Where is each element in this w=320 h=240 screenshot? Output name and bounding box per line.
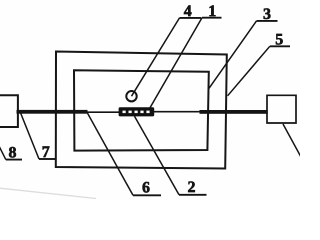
leader line for label 1 (to sensor bar) [150, 18, 202, 108]
label 5 underline [270, 45, 290, 47]
faint scan streak bottom-left [0, 188, 96, 199]
svg-text:1: 1 [208, 3, 216, 20]
leader line for label 3 (to inner box right edge) [209, 21, 257, 88]
right instrument box [267, 95, 296, 123]
label 6 underline [133, 194, 161, 196]
leader line for label 4 (to circle center) [132, 18, 180, 96]
cut-off leader from right box (label off-image) [283, 124, 301, 157]
svg-text:7: 7 [42, 144, 50, 161]
label 3 underline [257, 20, 278, 22]
label 8 underline [6, 159, 22, 161]
sensor bar (part 2) black body [119, 107, 155, 116]
thick fiber cable left (part 7) [17, 110, 88, 114]
svg-text:6: 6 [142, 180, 150, 197]
leader line for label 5 (to outer box right edge) [228, 46, 270, 96]
label 7 underline [39, 158, 55, 160]
leader line for label 8 (to left box, exits image) [0, 145, 6, 160]
thick fiber cable right (part 5 region) [200, 110, 268, 114]
thin fiber right [153, 111, 200, 113]
svg-text:8: 8 [9, 144, 17, 161]
svg-text:2: 2 [188, 179, 196, 196]
inner enclosure box [74, 70, 209, 150]
leader line for label 6 (to thin fiber) [87, 113, 133, 196]
label 1 underline [202, 17, 222, 19]
svg-text:4: 4 [184, 3, 192, 20]
label 2 underline [179, 194, 207, 196]
svg-text:3: 3 [263, 6, 271, 23]
sensor bar white segment dashes [123, 111, 150, 114]
outer enclosure box (part 3) [56, 52, 227, 169]
thin fiber left (part 6 points here) [86, 111, 120, 113]
label 4 underline [180, 17, 202, 19]
circle transducer (part 4) [126, 91, 136, 101]
left instrument box (part 8) [0, 95, 18, 127]
svg-text:5: 5 [275, 32, 283, 49]
leader line for label 7 (to thick fiber left) [20, 112, 39, 160]
leader line for label 2 (to sensor bar bottom) [135, 116, 180, 195]
